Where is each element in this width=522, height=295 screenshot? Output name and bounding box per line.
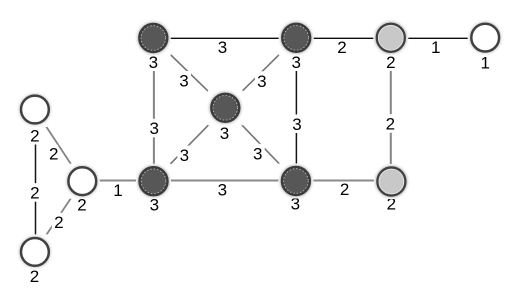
edge C-J weight 2 (390, 38, 392, 182)
label edge G-K : 2 (52, 213, 66, 232)
label node K : 2 (28, 267, 42, 286)
node knockout boxes (white margin around nodes over edges) (17, 20, 502, 269)
svg-text:2: 2 (30, 184, 39, 203)
edge A-B weight 3 (153, 37, 296, 39)
svg-text:3: 3 (292, 115, 301, 134)
label node J : 2 (384, 194, 398, 214)
node K (white) (20, 237, 50, 267)
label edge F-G : 2 (49, 145, 58, 164)
node J (light gray) (377, 167, 407, 197)
svg-text:3: 3 (149, 119, 158, 138)
svg-text:2: 2 (386, 115, 395, 134)
node H (dark) (139, 166, 169, 196)
svg-text:3: 3 (180, 146, 189, 165)
label edge E-H : 3 (177, 146, 191, 165)
node B (dark) (281, 23, 311, 53)
label edge B-E : 3 (255, 71, 269, 91)
edge G-K weight 2 (35, 181, 82, 252)
node A (dark) (138, 23, 168, 53)
edge I-J weight 2 (296, 179, 392, 181)
svg-text:1: 1 (480, 54, 489, 73)
node weight labels (below nodes, white background knockout) (28, 52, 491, 286)
label edge F-K : 2 (28, 183, 42, 202)
edge B-E weight 3 (225, 38, 296, 108)
node D (white) (470, 23, 500, 53)
svg-text:3: 3 (253, 144, 262, 163)
label edge B-C : 2 (335, 38, 348, 57)
label edge A-E : 3 (177, 71, 191, 91)
label edge G-H : 1 (113, 181, 123, 200)
label edge H-I : 3 (216, 181, 229, 200)
label edge C-J : 2 (383, 114, 397, 134)
node G (white) (67, 166, 97, 196)
edge E-I weight 3 (225, 108, 296, 181)
label edge I-J : 2 (338, 180, 351, 199)
svg-text:2: 2 (30, 267, 39, 286)
svg-text:3: 3 (218, 181, 227, 200)
edge B-I weight 3 (295, 38, 297, 181)
svg-text:1: 1 (431, 38, 440, 57)
svg-text:2: 2 (386, 53, 395, 72)
label node I : 3 (288, 194, 302, 214)
label node H : 3 (147, 195, 161, 214)
label node G : 2 (75, 195, 89, 214)
edge A-E weight 3 (153, 38, 225, 108)
edge H-I weight 3 (154, 179, 296, 181)
svg-text:3: 3 (218, 38, 227, 57)
label node E : 3 (218, 124, 232, 144)
label node B : 3 (289, 53, 303, 73)
svg-text:3: 3 (291, 53, 300, 72)
edge G-H weight 1 (82, 179, 153, 181)
edge F-K weight 2 (35, 110, 37, 252)
label edge A-B : 3 (216, 38, 229, 57)
node C (light gray) (376, 23, 406, 53)
svg-text:3: 3 (220, 124, 229, 143)
edges (drawn center to center, knocked out by node boxes / label boxes) (35, 38, 485, 252)
edge A-H weight 3 (153, 38, 155, 181)
label edge B-I : 3 (290, 115, 304, 135)
label edge A-H : 3 (147, 119, 161, 138)
edge F-G weight 2 (35, 110, 82, 182)
edge weight labels (white background knockout) (28, 38, 441, 232)
svg-text:3: 3 (149, 53, 158, 72)
edge E-H weight 3 (154, 108, 226, 181)
svg-text:2: 2 (54, 213, 63, 232)
label edge C-D : 1 (431, 38, 441, 57)
svg-text:2: 2 (30, 126, 39, 145)
label node D : 1 (480, 53, 491, 73)
label node F : 2 (28, 126, 42, 145)
svg-text:3: 3 (257, 72, 266, 91)
label edge E-I : 3 (251, 144, 265, 164)
svg-text:2: 2 (340, 180, 349, 199)
svg-text:3: 3 (179, 72, 188, 91)
label node A : 3 (146, 53, 160, 73)
svg-text:2: 2 (49, 145, 58, 164)
svg-text:1: 1 (113, 181, 122, 200)
node I (dark) (281, 166, 311, 196)
label node C : 2 (384, 52, 398, 71)
edge C-D weight 1 (391, 37, 485, 39)
node F (white) (20, 95, 50, 125)
edge B-C weight 2 (296, 37, 391, 39)
svg-text:2: 2 (337, 38, 346, 57)
node E (dark) (210, 93, 240, 123)
